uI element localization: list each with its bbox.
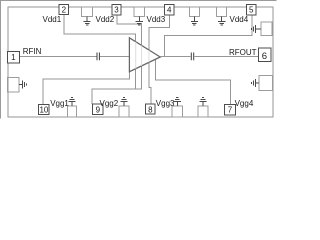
- svg-text:Vdd1: Vdd1: [43, 15, 62, 24]
- svg-text:RFOUT: RFOUT: [229, 48, 257, 57]
- svg-text:Vdd4: Vdd4: [230, 15, 249, 24]
- svg-text:6: 6: [262, 51, 267, 62]
- svg-text:8: 8: [148, 105, 153, 114]
- svg-text:5: 5: [249, 6, 254, 15]
- svg-text:Vgg4: Vgg4: [235, 99, 254, 108]
- svg-text:Vdd2: Vdd2: [96, 15, 115, 24]
- svg-text:2: 2: [62, 6, 67, 15]
- svg-text:7: 7: [228, 106, 233, 115]
- svg-text:3: 3: [114, 6, 119, 15]
- svg-text:10: 10: [39, 105, 48, 114]
- svg-text:Vdd3: Vdd3: [147, 15, 166, 24]
- svg-text:Vgg2: Vgg2: [100, 99, 119, 108]
- svg-text:Vgg1: Vgg1: [50, 99, 69, 108]
- svg-text:4: 4: [167, 6, 172, 15]
- svg-text:1: 1: [11, 53, 16, 62]
- svg-text:RFIN: RFIN: [23, 47, 42, 56]
- svg-text:Vgg3: Vgg3: [156, 99, 175, 108]
